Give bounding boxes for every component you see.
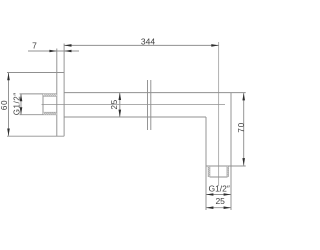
25 mid dimension line <box>119 93 121 117</box>
svg-text:25: 25 <box>110 99 119 110</box>
tube left edge <box>205 117 207 210</box>
bottom thread root left <box>209 166 211 177</box>
nipple left face <box>42 94 44 115</box>
arrow 70 bottom <box>242 158 245 165</box>
shoulder line above bottom thread <box>206 165 246 167</box>
flange left face <box>56 49 58 137</box>
tube centerline and 344 extension <box>218 42 220 186</box>
svg-text:60: 60 <box>0 100 9 110</box>
arrow 7 right (pointing left) <box>64 50 71 53</box>
arrow 344 left <box>64 44 71 47</box>
arrow 70 top <box>242 93 245 100</box>
arrow 7 left (pointing right) <box>49 50 56 53</box>
tube right edge <box>230 93 232 210</box>
dimension 7 line <box>28 50 79 52</box>
arrow G1/2 left top <box>20 94 23 101</box>
arrow 60 bottom <box>7 129 10 136</box>
arrow G1/2 bottom right <box>224 193 231 196</box>
bottom thread end face <box>210 176 228 178</box>
nipple top outer edge <box>20 93 57 95</box>
dimension 60 line <box>8 73 10 136</box>
horizontal centerline <box>42 104 226 106</box>
arrow 25 mid bottom <box>119 110 122 117</box>
arrow G1/2 left bottom <box>20 107 23 114</box>
bottom thread right crest <box>227 166 229 177</box>
left nipple thread band fill top <box>43 94 57 96</box>
left nipple thread hatch top <box>43 94 56 96</box>
svg-text:7: 7 <box>32 41 37 51</box>
nipple bottom outer edge <box>20 114 57 116</box>
arrow 60 top <box>7 73 10 80</box>
bottom thread left crest <box>207 166 209 177</box>
bottom thread hatch left <box>208 166 210 177</box>
nipple bottom thread root line <box>43 111 57 113</box>
svg-text:70: 70 <box>237 122 246 133</box>
svg-text:25: 25 <box>215 196 225 206</box>
bottom thread band fill left <box>208 166 210 177</box>
nipple top thread root line <box>43 95 57 97</box>
flange right face <box>63 44 65 137</box>
left nipple thread hatch bottom <box>43 112 56 114</box>
bottom thread root right <box>226 166 228 177</box>
arrow 25 bottom right <box>224 206 231 209</box>
svg-text:G1/2″: G1/2″ <box>208 183 229 193</box>
dimension 344 line <box>64 44 219 46</box>
extension line flange bottom <box>7 135 64 137</box>
25 bottom dimension line <box>206 207 231 209</box>
arrow G1/2 bottom left <box>206 193 213 196</box>
break mark right <box>150 80 152 130</box>
left nipple thread band fill bottom <box>43 112 57 114</box>
svg-text:G1/2″: G1/2″ <box>13 92 22 115</box>
arm bottom edge <box>64 116 206 118</box>
G1/2 bottom dimension line <box>206 194 231 196</box>
break mark left <box>147 80 149 130</box>
arrow 25 bottom left <box>206 206 213 209</box>
svg-text:344: 344 <box>141 36 155 46</box>
extension line flange top <box>7 72 64 74</box>
dimension 70 line <box>243 93 245 166</box>
arrow 344 right <box>211 44 218 47</box>
bottom thread band fill right <box>227 166 229 177</box>
arm top edge <box>64 92 246 94</box>
G1/2 left dimension line <box>20 94 22 115</box>
bottom thread hatch right <box>227 166 229 177</box>
arrow 25 mid top <box>119 93 122 100</box>
